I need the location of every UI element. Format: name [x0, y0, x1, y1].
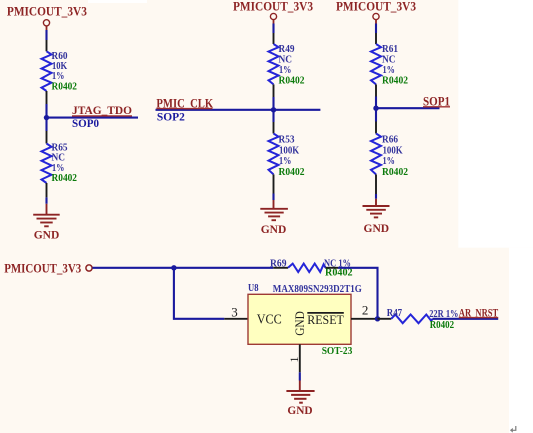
net label SOP1	[423, 93, 450, 108]
pin	[273, 267, 288, 269]
svg-text:GND: GND	[261, 222, 287, 236]
svg-text:R0402: R0402	[382, 167, 408, 178]
power port PMICOUT_3V3 (col3)	[336, 0, 416, 24]
pin	[273, 33, 275, 44]
pin	[375, 174, 377, 194]
svg-text:R47: R47	[387, 308, 402, 319]
pin 3	[224, 318, 248, 320]
junction	[271, 107, 276, 112]
svg-text:R0402: R0402	[279, 75, 305, 86]
pin	[375, 84, 377, 96]
junction	[373, 106, 378, 111]
pin name RESET with overline	[307, 312, 344, 327]
wire	[45, 104, 47, 131]
svg-text:1%: 1%	[279, 156, 291, 167]
wire PMIC_CLK	[156, 109, 321, 111]
svg-text:GND: GND	[287, 403, 313, 417]
power port PMICOUT_3V3 (col2)	[233, 0, 313, 24]
svg-text:R0402: R0402	[52, 82, 78, 93]
resistor R53	[269, 134, 305, 179]
svg-text:1: 1	[287, 357, 301, 363]
wire	[375, 97, 377, 122]
wire	[272, 24, 274, 34]
svg-text:R0402: R0402	[52, 173, 78, 184]
net label PMIC_CLK	[156, 97, 213, 111]
wire	[375, 24, 377, 34]
svg-text:22R 1%: 22R 1%	[429, 309, 458, 320]
svg-text:PMICOUT_3V3: PMICOUT_3V3	[336, 0, 416, 14]
svg-text:U8: U8	[248, 283, 259, 294]
resistor R66	[371, 134, 408, 179]
pin 1	[299, 344, 301, 372]
svg-text:100K: 100K	[279, 146, 299, 157]
white page region bottom-right	[509, 248, 533, 433]
svg-text:R66: R66	[382, 134, 398, 145]
svg-text:GND: GND	[364, 221, 390, 235]
resistor R47	[387, 308, 433, 323]
svg-text:R0402: R0402	[430, 320, 454, 331]
resistor R60	[42, 51, 78, 93]
pin	[273, 122, 275, 134]
svg-text:SOP2: SOP2	[157, 110, 185, 124]
resistor R65	[42, 142, 78, 184]
ground (U8)	[286, 381, 314, 418]
pin	[273, 174, 275, 193]
ground (col2)	[260, 200, 288, 236]
resistor R69	[270, 258, 353, 278]
net label JTAG_TDO	[72, 103, 132, 117]
IC U8 body	[248, 294, 351, 344]
svg-text:GND: GND	[292, 311, 307, 336]
resistor R49	[269, 44, 305, 87]
svg-text:VCC: VCC	[257, 312, 282, 327]
svg-text:RESET: RESET	[307, 312, 344, 327]
white sliver top edge	[88, 0, 147, 3]
pin 2	[351, 318, 378, 320]
pin	[46, 40, 48, 51]
svg-text:R0402: R0402	[279, 167, 305, 178]
svg-text:PMICOUT_3V3: PMICOUT_3V3	[233, 0, 313, 14]
svg-text:1%: 1%	[383, 156, 395, 167]
power port PMICOUT_3V3 (col1)	[7, 5, 87, 31]
pin	[46, 131, 48, 144]
pin	[46, 91, 48, 104]
svg-text:SOP0: SOP0	[72, 116, 99, 130]
ground (col3)	[363, 199, 390, 235]
svg-text:R0402: R0402	[325, 267, 353, 278]
svg-text:PMICOUT_3V3: PMICOUT_3V3	[7, 5, 87, 19]
pin	[273, 84, 275, 97]
wire	[45, 30, 47, 40]
wire	[375, 194, 377, 199]
svg-text:3: 3	[231, 304, 238, 319]
wire	[338, 268, 378, 319]
resistor R61	[371, 44, 408, 87]
wire JTAG_TDO	[47, 117, 139, 119]
ground (col1)	[33, 204, 60, 242]
svg-text:100K: 100K	[383, 146, 403, 157]
junction	[375, 316, 380, 321]
junction	[44, 115, 49, 120]
wire (vcc drop)	[174, 268, 224, 319]
svg-text:R0402: R0402	[382, 75, 408, 86]
svg-text:NC: NC	[52, 153, 66, 164]
wire	[272, 194, 274, 201]
svg-text:1%: 1%	[52, 71, 64, 82]
wire	[92, 267, 273, 269]
pin	[378, 318, 392, 320]
junction	[171, 265, 176, 270]
power port PMICOUT_3V3 (bottom)	[4, 262, 92, 276]
svg-text:SOT-23: SOT-23	[322, 345, 353, 357]
wire	[299, 372, 301, 380]
white page region top-right	[458, 0, 533, 248]
wire	[272, 97, 274, 122]
svg-text:MAX809SN293D2T1G: MAX809SN293D2T1G	[273, 284, 362, 295]
svg-text:R69: R69	[270, 258, 287, 269]
carriage-return mark	[510, 426, 516, 433]
wire SOP1	[376, 107, 440, 109]
svg-text:1%: 1%	[383, 65, 395, 76]
pin	[326, 267, 339, 269]
wire	[45, 197, 47, 203]
pin	[375, 33, 377, 44]
svg-text:R49: R49	[279, 44, 295, 55]
pin	[375, 122, 377, 134]
net label AR_NRST	[459, 308, 499, 320]
svg-text:PMICOUT_3V3: PMICOUT_3V3	[4, 262, 81, 276]
wire AR_NRST	[433, 318, 499, 320]
svg-text:GND: GND	[34, 227, 60, 241]
svg-text:2: 2	[362, 303, 369, 318]
svg-text:R61: R61	[382, 44, 398, 55]
svg-text:R53: R53	[279, 134, 295, 145]
svg-text:1%: 1%	[279, 65, 291, 76]
pin	[46, 183, 48, 197]
